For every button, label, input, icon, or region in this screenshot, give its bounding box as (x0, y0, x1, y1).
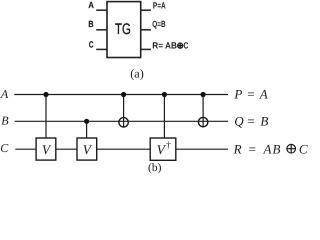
svg-text:(b): (b) (148, 162, 162, 174)
svg-text:R= AB: R= AB (152, 41, 177, 51)
wire output Q stub (141, 29, 151, 31)
svg-text:†: † (166, 141, 171, 151)
svg-text:Q=B: Q=B (152, 19, 166, 29)
xor symbol in label R (177, 43, 183, 49)
control dot column 3 on A (121, 92, 126, 97)
wire C segment 1 (15, 148, 36, 150)
CNOT target circle column 3 (119, 118, 128, 127)
svg-text:C: C (89, 40, 94, 50)
CNOT target circle column 5 (198, 117, 207, 126)
svg-text:A: A (88, 0, 94, 10)
control line column 1 (45, 95, 47, 139)
svg-text:=: = (247, 87, 254, 102)
svg-text:A: A (0, 87, 9, 101)
wire C segment 2 (56, 148, 77, 150)
wire C segment 3 (97, 148, 151, 150)
wire output P stub (141, 9, 151, 11)
svg-text:C: C (0, 141, 9, 155)
wire B (15, 120, 228, 122)
svg-text:B: B (1, 113, 9, 127)
svg-text:TG: TG (115, 21, 131, 38)
wire input C stub (96, 48, 107, 50)
control dot column 5 on A (201, 92, 206, 97)
svg-text:Q: Q (234, 113, 244, 128)
svg-text:C: C (184, 41, 189, 51)
svg-text:B: B (88, 19, 94, 29)
control line column 4 (163, 95, 165, 139)
equation P = A (233, 87, 267, 102)
control line column 5 (CNOT) (202, 95, 204, 127)
equation R = AB (first part) (233, 141, 282, 156)
control dot column 4 on A (162, 92, 167, 97)
gate box TG (107, 2, 141, 58)
wire input B stub (96, 29, 107, 31)
gate box V2 (77, 138, 97, 160)
wire C segment 4 (176, 148, 228, 150)
svg-text:=: = (247, 113, 254, 128)
svg-text:R: R (233, 141, 242, 156)
wire output R stub (141, 48, 151, 50)
wire A (14, 94, 228, 96)
svg-text:A: A (259, 87, 268, 102)
xor symbol in equation R (286, 144, 296, 154)
gate box V-dagger (150, 138, 176, 160)
svg-text:P: P (233, 87, 242, 102)
svg-text:AB: AB (263, 141, 282, 156)
svg-text:(a): (a) (130, 67, 144, 81)
svg-text:P=A: P=A (153, 1, 166, 11)
svg-text:B: B (260, 113, 268, 128)
svg-text:C: C (299, 141, 308, 156)
equation Q = B (234, 113, 268, 128)
control line column 3 (CNOT) (123, 95, 125, 128)
control dot column 1 on A (43, 92, 48, 97)
gate box V1 (36, 138, 56, 160)
control dot column 2 on B (84, 119, 89, 124)
wire input A stub (96, 9, 107, 11)
svg-text:=: = (249, 141, 256, 156)
control line column 2 (86, 121, 88, 138)
